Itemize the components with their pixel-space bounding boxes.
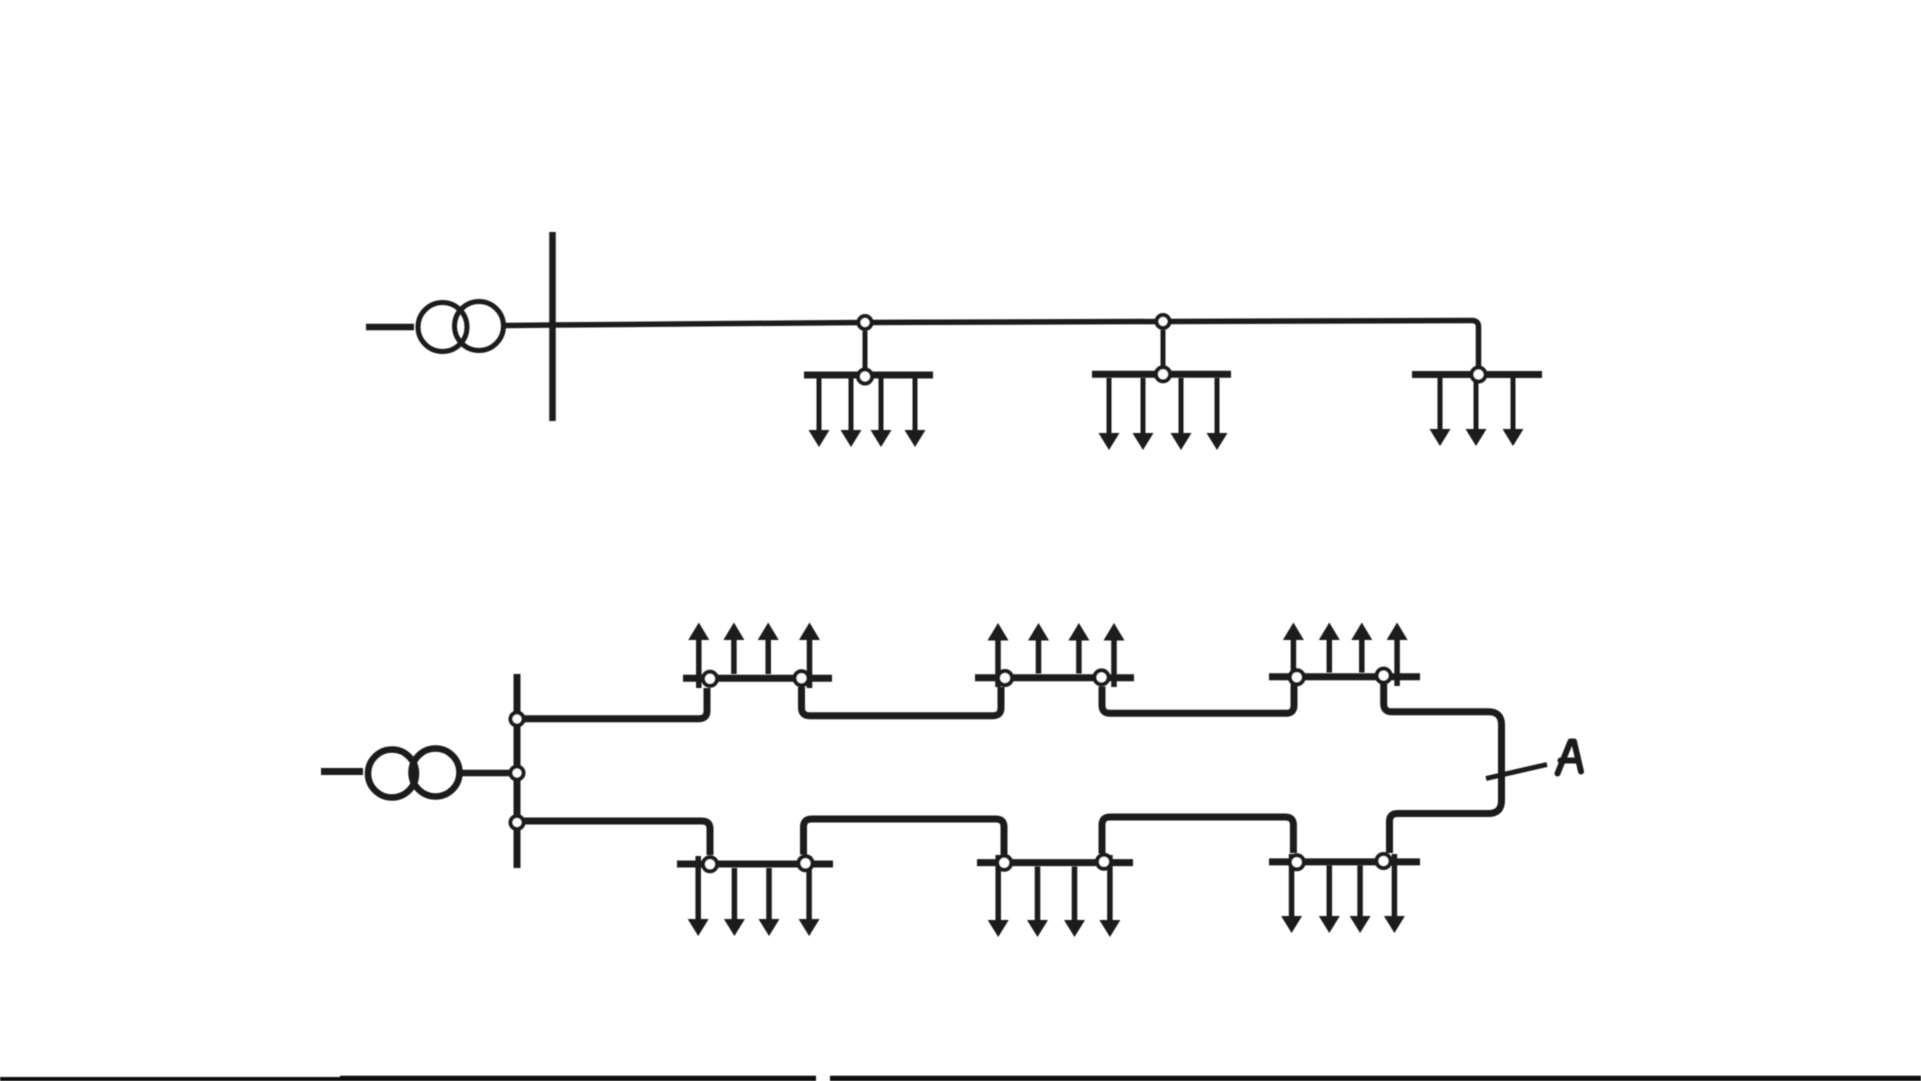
distribution bar U1: [683, 675, 832, 682]
wire lower ring feeder: L2 to L1: [804, 819, 1005, 855]
junction node L3 right: [1377, 854, 1391, 868]
distribution bar load 3: [1412, 371, 1542, 378]
wire main feeder (top diagram): [553, 321, 1479, 369]
load 1 arrows: [809, 379, 926, 448]
junction node U2 right: [1095, 670, 1109, 684]
junction node L1 left: [703, 857, 717, 871]
wire source stub (top diagram): [366, 324, 414, 331]
wire transformer to busbar (bottom): [460, 770, 514, 777]
junction node L1 right: [799, 856, 813, 870]
distribution bar L3: [1269, 858, 1420, 865]
wire upper ring feeder: U1 to U2: [802, 687, 1002, 716]
wire tap 1: [863, 331, 868, 369]
transformer T1: [418, 302, 504, 352]
wire lower ring feeder: L1 to busbar: [517, 821, 710, 855]
distribution bar L1: [677, 861, 833, 868]
distribution bar load 1: [804, 372, 933, 379]
junction node on bar 2: [1156, 367, 1170, 381]
leader line to node A: [1486, 765, 1547, 779]
load group U1 arrows (upward): [688, 623, 820, 689]
wire upper ring feeder: U2 to U3: [1102, 686, 1294, 713]
junction node L2 right: [1097, 855, 1111, 869]
distribution bar L2: [977, 859, 1133, 866]
wire lower ring feeder: L3 to L2: [1102, 817, 1293, 854]
load group L1 arrows (downward): [688, 856, 820, 936]
scan page edge line (bottom): [0, 1076, 1921, 1081]
junction node on busbar (middle): [511, 767, 524, 780]
node A label: [1558, 742, 1582, 774]
load 2 arrows: [1099, 378, 1228, 450]
wire ring closing segment A (right side loop): [1384, 684, 1502, 853]
junction node on busbar (lower): [511, 816, 524, 829]
junction node on bar 3: [1472, 368, 1486, 382]
load group L3 arrows (downward): [1281, 854, 1405, 933]
load group U2 arrows (upward): [988, 623, 1125, 687]
junction node J1 on feeder: [859, 316, 872, 329]
junction node on bar 1: [858, 370, 872, 384]
wire upper ring feeder: busbar to load group U1: [517, 688, 707, 719]
junction node U1 left: [703, 672, 717, 686]
wire source stub (bottom diagram): [321, 768, 363, 775]
wire tap 2: [1161, 330, 1166, 367]
transformer T2: [368, 749, 460, 798]
junction node J2 on feeder: [1157, 315, 1170, 328]
junction node L2 left: [997, 856, 1011, 870]
distribution bar load 2: [1092, 371, 1231, 378]
junction node U3 right: [1377, 669, 1391, 683]
load group U3 arrows (upward): [1283, 623, 1408, 687]
distribution bar U3: [1269, 673, 1420, 680]
busbar (bottom diagram): [514, 674, 521, 868]
load 3 arrows: [1430, 378, 1524, 446]
junction node L3 left: [1290, 855, 1304, 869]
junction node U2 left: [998, 671, 1012, 685]
junction node on busbar (upper): [511, 713, 524, 726]
load group L2 arrows (downward): [988, 855, 1121, 937]
busbar (top diagram): [549, 232, 556, 421]
junction node U3 left: [1290, 670, 1304, 684]
distribution bar U2: [975, 674, 1134, 681]
junction node U1 right: [795, 671, 809, 685]
wire transformer to busbar: [503, 322, 554, 328]
